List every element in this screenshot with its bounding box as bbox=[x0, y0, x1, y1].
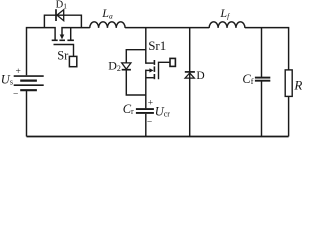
transistor Sr gate terminal box bbox=[69, 56, 76, 66]
svg-text:La: La bbox=[101, 6, 113, 21]
wire D2 top branch bbox=[126, 50, 146, 63]
wire Sr source stub bbox=[70, 28, 72, 40]
svg-text:Lf: Lf bbox=[219, 6, 230, 21]
svg-text:Cf: Cf bbox=[242, 72, 253, 86]
svg-text:Ucr: Ucr bbox=[155, 104, 171, 118]
transistor Sr1 gate terminal box bbox=[170, 58, 175, 66]
svg-text:Cr: Cr bbox=[123, 102, 134, 116]
wire left rail upper and top-left segment bbox=[27, 28, 56, 76]
wire Sr1 bottom stub bbox=[146, 77, 154, 79]
svg-text:−: − bbox=[147, 118, 152, 128]
diode D2 bbox=[122, 63, 131, 70]
svg-text:Us: Us bbox=[1, 73, 13, 87]
battery Us plates bbox=[14, 76, 44, 90]
wire top right segment bbox=[245, 28, 289, 70]
svg-text:Sr: Sr bbox=[57, 49, 69, 63]
wire diode D branch bbox=[189, 28, 191, 137]
diode D1 bypass branch wire bbox=[44, 15, 81, 27]
svg-text:D2: D2 bbox=[108, 59, 121, 73]
inductor La bbox=[90, 22, 125, 28]
wire bottom rail bbox=[27, 136, 289, 138]
diode D bbox=[185, 72, 195, 78]
svg-text:R: R bbox=[293, 78, 302, 93]
svg-text:+: + bbox=[148, 99, 153, 109]
inductor Lf bbox=[209, 22, 245, 28]
wire Cr bottom lead bbox=[145, 114, 147, 137]
svg-text:D1: D1 bbox=[56, 0, 68, 11]
transistor Sr gate bar and lead bbox=[54, 45, 74, 57]
wire top segment from Sr arrow corner to La bbox=[62, 28, 90, 35]
capacitor Cr plates bbox=[136, 109, 154, 113]
wire left rail lower bbox=[26, 91, 28, 137]
wire Sr1 drain stub bbox=[146, 62, 154, 64]
wire D2 bottom branch bbox=[126, 70, 146, 95]
transistor Sr1 channel segments bbox=[153, 60, 155, 79]
wire top mid segment bbox=[125, 27, 209, 29]
transistor Sr1 body arrow bbox=[146, 68, 154, 72]
transistor Sr channel segments bbox=[52, 39, 74, 41]
wire Sr1 branch drain bbox=[145, 28, 147, 64]
svg-text:−: − bbox=[13, 90, 18, 100]
transistor Sr1 gate bar and lead bbox=[159, 62, 170, 79]
svg-text:+: + bbox=[16, 67, 21, 77]
capacitor Cf plates bbox=[255, 78, 270, 81]
wire Cf branch lower bbox=[261, 81, 263, 136]
svg-text:D: D bbox=[196, 70, 204, 82]
wire R branch lower bbox=[288, 96, 290, 136]
transistor Sr body arrow bbox=[60, 35, 65, 40]
diode D1 bbox=[56, 9, 64, 21]
wire Cf branch upper bbox=[261, 28, 263, 77]
wire Sr1 source lead down to Cr bbox=[145, 70, 147, 109]
svg-text:Sr1: Sr1 bbox=[148, 38, 166, 53]
resistor R box bbox=[285, 70, 292, 97]
